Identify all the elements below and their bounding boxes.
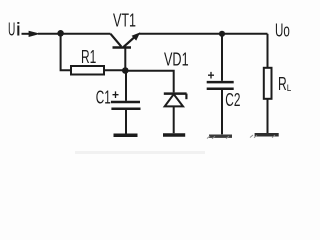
svg-text:R: R <box>278 74 287 94</box>
svg-text:VD1: VD1 <box>164 49 189 69</box>
svg-text:L: L <box>287 83 292 94</box>
svg-text:Uo: Uo <box>275 21 290 41</box>
svg-text:+: + <box>112 87 119 102</box>
svg-text:C1: C1 <box>96 87 111 107</box>
svg-text:VT1: VT1 <box>113 11 136 31</box>
svg-text:R1: R1 <box>81 47 96 67</box>
svg-text:U: U <box>8 20 15 40</box>
svg-text:i: i <box>16 20 20 40</box>
svg-text:+: + <box>208 67 215 82</box>
svg-text:C2: C2 <box>225 90 240 110</box>
